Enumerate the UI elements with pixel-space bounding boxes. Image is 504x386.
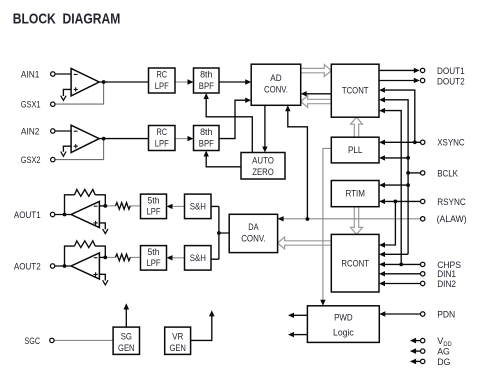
block VR GEN [165,327,191,354]
svg-text:LPF: LPF [155,80,169,91]
svg-text:Logic: Logic [333,326,354,337]
svg-text:BPF: BPF [199,80,214,91]
wire A2 plus input to signal ground [63,146,71,152]
terminal PDN [421,312,425,316]
op-amp A2 [71,125,99,152]
wire A1 plus input to signal ground [63,89,71,96]
junction node CHPS bus [399,263,403,267]
op-amp A4 [71,253,99,279]
wire DIN2 to RCONT [379,281,420,286]
svg-text:8th: 8th [200,69,212,80]
junction node AOUT2 [63,264,67,268]
open bus arrow PLL to TCONT [351,117,363,137]
wire PWD Logic output arrow lower [288,332,307,337]
wire A4 plus input to signal ground [99,274,105,280]
open bus arrow TCONT to AD CONV [301,96,332,108]
wire bus CHPS to TCONT input3 [379,108,401,265]
svg-text:BLOCK DIAGRAM: BLOCK DIAGRAM [13,10,121,27]
block 5th LPF 2 [141,246,167,271]
block SG GEN [113,327,139,354]
svg-text:S&H: S&H [190,201,206,212]
block PWD Logic [307,306,379,343]
wire BCLK to bus [408,172,420,174]
svg-text:RCONT: RCONT [341,258,369,269]
block 8th BPF 2 [194,126,220,151]
resistor R3 feedback A4 [75,241,96,248]
wire XSYNC to PLL [379,140,420,145]
terminal AIN2 [51,129,55,133]
signal ground arrow at A2 [61,152,66,157]
terminal AOUT1 [50,212,54,216]
svg-text:CONV.: CONV. [264,84,288,95]
wire AUTO ZERO to 8th BPF2 [204,151,242,167]
svg-text:VR: VR [172,330,183,341]
junction node AOUT1 [63,213,67,217]
block S&H 2 [185,246,212,271]
wire VDD pin arrow [410,338,420,344]
wire TCONT to DOUT1 [379,68,420,73]
svg-text:DOUT2: DOUT2 [437,77,465,87]
svg-text:SGC: SGC [25,336,41,347]
svg-text:DOUT1: DOUT1 [437,66,465,76]
signal ground arrow at A4 [103,280,108,285]
junction node ALAW riser [306,217,310,221]
signal ground arrow at A1 [61,96,66,101]
svg-text:GSX2: GSX2 [21,155,41,166]
wire AD CONV to AUTO ZERO [262,105,267,152]
junction node RSYNC bus [394,200,398,204]
wire VR GEN output arrow [191,310,215,340]
terminal DOUT1 [420,68,424,72]
wire SG GEN output arrow [124,303,130,327]
resistor R1 feedback A3 [75,190,96,197]
wire TCONT to DOUT2 [379,78,420,83]
junction node XSYNC bus [413,140,417,144]
block 5th LPF 1 [141,194,167,219]
svg-text:PLL: PLL [348,144,363,155]
block DA CONV [229,214,277,252]
wire RSYNC to RTIM [379,199,420,204]
svg-text:PDN: PDN [437,309,455,319]
svg-text:GEN: GEN [169,342,186,353]
wire A4 feedback loop [65,246,106,266]
junction node DA output [217,231,221,235]
svg-text:DA: DA [248,221,259,232]
wire GSX2 feedback to A2 output node [55,139,104,160]
wire PLL to PWD Logic gray [320,148,331,305]
wire AUTO ZERO to 8th BPF1 [204,93,253,153]
junction node BCLK [406,171,410,175]
svg-text:AOUT1: AOUT1 [14,210,41,221]
terminal GSX1 [51,102,55,106]
wire 8th BPF2 to AD CONV [219,98,251,139]
terminal RSYNC [421,199,425,203]
svg-text:AIN1: AIN1 [21,69,40,80]
wire RC LPF2 to 8th BPF2 [175,136,194,141]
wire bus XSYNC to TCONT [379,87,415,142]
block RC LPF 1 [149,68,176,93]
wire A3 plus input to signal ground [99,223,105,229]
wire 5th LPF1 to resistor R2 gray [130,205,140,207]
svg-text:5th: 5th [148,194,160,205]
svg-text:(ALAW): (ALAW) [437,214,467,224]
svg-text:8th: 8th [200,126,212,137]
block RCONT [331,234,379,292]
wire S&H1 to 5th LPF1 [167,204,185,209]
svg-text:AD: AD [270,72,282,83]
terminal AIN1 [51,72,55,76]
svg-text:5th: 5th [148,246,160,257]
wire AIN2 to op-amp A2 [55,130,71,132]
wire S&H2 to 5th LPF2 [167,255,185,260]
svg-text:BCLK: BCLK [437,168,459,178]
svg-text:AOUT2: AOUT2 [14,261,41,272]
wire CHPS to RCONT [379,262,420,267]
svg-text:BPF: BPF [199,137,214,148]
terminal AOUT2 [50,264,54,268]
wire AG pin arrow [410,348,420,354]
wire 5th LPF2 to resistor R4 gray [130,256,140,258]
terminal BCLK [421,171,425,175]
svg-text:RTIM: RTIM [345,188,365,199]
svg-text:LPF: LPF [147,206,161,217]
open bus arrow RCONT to DA CONV [278,237,332,249]
junction node A4 minus [103,256,107,260]
block S&H 1 [185,194,212,219]
svg-text:RC: RC [157,126,168,137]
junction node A2 output [102,137,106,141]
wire 8th BPF1 to AD CONV [219,79,251,84]
wire PWD Logic output arrow upper [288,313,307,318]
op-amp A3 [71,201,99,227]
terminal ALAW [421,217,425,221]
terminal CHPS [421,262,425,266]
wire ALAW node riser to AD CONV [285,105,307,219]
wire DIN1 to RCONT [379,271,420,276]
wire bus to RCONT input2 [379,252,408,257]
svg-text:LPF: LPF [155,137,169,148]
svg-text:DG: DG [437,357,450,367]
block AUTO ZERO [241,153,285,180]
signal ground arrow at A3 [103,229,108,234]
wire A3 feedback loop [65,195,106,215]
terminal GSX2 [51,157,55,161]
terminal DIN1 [421,272,425,276]
svg-text:ZERO: ZERO [252,166,274,177]
terminal SGC [50,338,54,342]
wire A2 output to RC LPF2 [99,138,148,140]
svg-text:DIN1: DIN1 [437,269,456,279]
svg-text:SG: SG [121,330,132,341]
wire AOUT2 op-amp A4 output [55,265,71,267]
svg-text:GEN: GEN [118,342,135,353]
resistor R4 input A4 [115,254,130,261]
resistor R2 input A3 [115,203,130,210]
wire bus BCLK TCONT RCONT [379,97,408,254]
svg-text:DIN2: DIN2 [437,279,456,289]
wire TCONT to AD CONV single [301,91,332,96]
open bus arrow AD CONV to TCONT [301,65,332,77]
terminal VDD [421,338,425,342]
wire AOUT1 op-amp A3 output [55,214,71,216]
wire bus tee to RTIM input1 [379,182,408,187]
block RC LPF 2 [149,126,176,151]
block RTIM [331,181,379,207]
junction node A1 output [102,80,106,84]
block PLL [331,137,379,163]
junction node RTIM input1 [406,183,410,187]
svg-text:TCONT: TCONT [342,85,369,96]
wire bus tee to PLL input2 [379,155,408,160]
wire SGC to SG GEN gray [54,339,113,341]
terminal XSYNC [421,140,425,144]
block AD CONV [251,64,301,105]
wire bus RSYNC to RCONT input1 [379,201,395,247]
block 8th BPF 1 [194,68,220,93]
op-amp A1 [71,69,99,96]
svg-text:AG: AG [437,347,450,357]
terminal AG [421,349,425,353]
terminal DG [421,359,425,363]
wire A3 minus input to resistor R2 [99,205,105,207]
svg-text:GSX1: GSX1 [21,100,41,111]
svg-text:S&H: S&H [190,252,206,263]
svg-text:AUTO: AUTO [252,155,274,166]
wire AIN1 to op-amp A1 [55,73,71,75]
block TCONT [331,64,379,117]
terminal DIN2 [421,281,425,285]
terminal DOUT2 [420,78,424,82]
svg-text:PWD: PWD [334,311,353,322]
wire A4 minus input to resistor R4 [99,256,105,258]
svg-text:AIN2: AIN2 [21,126,40,137]
junction node PLL input2 [406,156,410,160]
svg-text:LPF: LPF [147,257,161,268]
svg-text:XSYNC: XSYNC [437,138,465,148]
svg-text:CONV.: CONV. [241,233,265,244]
wire (ALAW) gray line to DA CONV [278,216,421,221]
wire DA CONV output node [211,206,229,259]
wire DG pin arrow [410,359,420,365]
svg-text:RC: RC [157,69,168,80]
wire GSX1 feedback to A1 output node [55,82,104,104]
open bus arrow RTIM to RCONT [351,207,363,235]
wire A1 output to RC LPF1 [99,81,148,83]
wire PDN to PWD Logic [379,311,420,316]
wire RC LPF1 to 8th BPF1 [175,79,194,84]
junction node A3 minus [103,204,107,208]
svg-text:RSYNC: RSYNC [437,197,466,207]
